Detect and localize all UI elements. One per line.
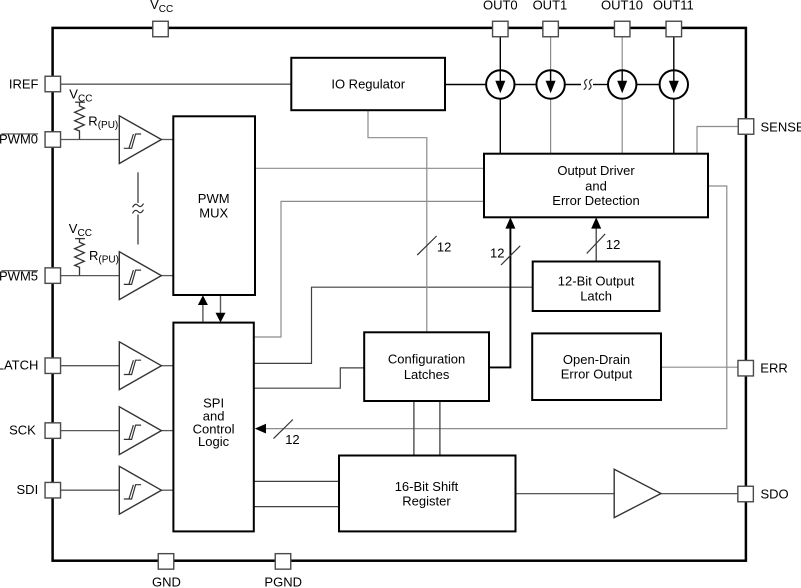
pin PWM0 <box>45 132 61 148</box>
pin SDI <box>45 482 61 498</box>
svg-text:12: 12 <box>606 237 620 252</box>
svg-text:Error Detection: Error Detection <box>552 193 639 208</box>
arrowhead into SPI top <box>216 313 226 323</box>
pin OUT10 <box>614 21 630 37</box>
wire SENSE to Output Driver <box>697 127 738 154</box>
svg-text:IREF: IREF <box>9 76 39 91</box>
pin SDO <box>738 486 754 502</box>
svg-text:SCK: SCK <box>9 423 36 438</box>
pin SCK <box>45 423 61 439</box>
bus slash on Config-to-Driver wire <box>501 246 520 265</box>
svg-text:MUX: MUX <box>199 205 228 220</box>
pin LATCH <box>45 358 61 374</box>
svg-text:PGND: PGND <box>264 575 302 588</box>
block Open-Drain Error Output <box>532 333 661 400</box>
block SPI and Control Logic <box>173 323 253 532</box>
wire PWM MUX up-arrow from SPI <box>202 304 204 322</box>
block Configuration Latches <box>364 332 489 401</box>
arrowhead into PWM MUX bottom <box>198 295 208 305</box>
pin VCC <box>153 21 169 37</box>
block IO Regulator <box>291 58 445 110</box>
wire IO Regulator down to Configuration Latches <box>368 110 427 332</box>
wire output buffer to SDO pin <box>661 493 738 495</box>
wire PWM MUX to Output Driver <box>255 167 484 169</box>
svg-text:16-Bit Shift: 16-Bit Shift <box>395 479 459 494</box>
bus 12-Bit Output Latch to Output Driver <box>595 228 597 262</box>
bus slash on Latch-to-Driver wire <box>587 234 606 254</box>
wires SPI to 16-Bit Shift Register <box>254 480 339 482</box>
svg-text:Latch: Latch <box>580 288 612 303</box>
wire IREF to IO Regulator <box>61 83 292 85</box>
bus slash on IO-Reg-to-Config wire <box>417 236 436 255</box>
svg-text:Error Output: Error Output <box>561 367 633 382</box>
current source I-OUT11 <box>660 70 688 98</box>
wire SDI pin to trigger <box>61 489 120 491</box>
pin IREF <box>45 76 61 92</box>
wire PWM0 pin to trigger <box>61 139 120 141</box>
wire SPI up-over to Output Driver <box>254 201 484 337</box>
pin PGND <box>275 554 291 570</box>
wires Configuration Latches to 16-Bit Shift Register <box>413 401 415 456</box>
pin SENSE <box>738 119 754 135</box>
svg-text:12: 12 <box>437 239 451 254</box>
svg-text:12-Bit Output: 12-Bit Output <box>558 273 635 288</box>
pin OUT1 <box>543 21 559 37</box>
arrowhead into Output Driver bottom <box>591 217 601 228</box>
wire Open-Drain Error Output to ERR pin <box>661 366 738 368</box>
svg-text:PWM: PWM <box>198 191 230 206</box>
svg-text:Register: Register <box>402 493 451 508</box>
bus Output Driver feedback to SPI <box>265 186 727 429</box>
output buffer triangle (SDO) <box>614 469 661 517</box>
svg-text:Open-Drain: Open-Drain <box>563 352 630 367</box>
svg-text:Output Driver: Output Driver <box>557 163 635 178</box>
schmitt trigger U4 (SCK) <box>119 407 161 455</box>
svg-text:Configuration: Configuration <box>388 351 465 366</box>
resistor R(PU) pull-up on PWM0 <box>75 102 85 139</box>
svg-text:Latches: Latches <box>404 367 450 382</box>
wire SCK pin to trigger <box>61 430 120 432</box>
svg-text:OUT10: OUT10 <box>601 0 643 12</box>
block PWM MUX <box>173 116 255 295</box>
svg-text:IO Regulator: IO Regulator <box>331 76 405 91</box>
wire SPI down-arrow from PWM MUX <box>220 296 222 314</box>
svg-text:and: and <box>585 179 607 194</box>
svg-text:ERR: ERR <box>760 361 787 376</box>
bus slash on feedback wire <box>274 420 293 439</box>
wire 16-Bit Shift Register to output buffer <box>516 493 615 495</box>
wire trigger U1 out to PWM MUX <box>161 139 174 141</box>
wire SPI to 12-Bit Output Latch <box>254 287 533 363</box>
block Output Driver and Error Detection <box>484 154 708 218</box>
svg-text:Logic: Logic <box>198 434 230 449</box>
wire trigger U5 out to SPI <box>161 489 174 491</box>
pin OUT0 <box>493 21 509 37</box>
current source I-OUT0 <box>486 70 514 98</box>
current source I-OUT1 <box>536 70 564 98</box>
current source I-OUT10 <box>608 70 636 98</box>
block 12-Bit Output Latch <box>533 262 660 312</box>
svg-text:OUT11: OUT11 <box>653 0 694 12</box>
pin PWM5 <box>45 268 61 284</box>
current source rail from IO Regulator <box>445 84 486 86</box>
wire LATCH pin to trigger <box>61 365 120 367</box>
svg-text:LATCH: LATCH <box>0 358 38 373</box>
bus Configuration Latches to Output Driver <box>489 228 510 368</box>
svg-text:SDI: SDI <box>17 482 39 497</box>
svg-text:OUT1: OUT1 <box>533 0 568 12</box>
wire trigger U2 out to PWM MUX <box>161 275 174 277</box>
svg-text:12: 12 <box>285 432 299 447</box>
chip outline border <box>53 28 746 561</box>
OUT10 column wires <box>621 37 623 70</box>
svg-text:SDO: SDO <box>761 486 789 501</box>
block 16-Bit Shift Register <box>339 456 516 532</box>
OUT0 column wires <box>499 37 501 70</box>
pin OUT11 <box>666 21 682 37</box>
schmitt trigger U1 (PWM0) <box>119 116 161 164</box>
wire PWM5 pin to trigger <box>61 275 120 277</box>
wire SPI to Configuration Latches <box>254 368 364 388</box>
pin ERR <box>738 360 754 376</box>
rail break squiggle <box>584 79 588 89</box>
arrowhead into SPI right edge <box>255 424 266 434</box>
schmitt trigger U5 (SDI) <box>119 466 161 514</box>
OUT11 column wires <box>673 37 675 70</box>
resistor R(PU) pull-up on PWM5 <box>75 239 85 276</box>
svg-text:OUT0: OUT0 <box>483 0 518 12</box>
wire trigger U4 out to SPI <box>161 430 174 432</box>
OUT1 column wires <box>550 37 552 70</box>
pin GND <box>158 554 174 570</box>
channel-continuation break line between PWM triggers <box>133 172 144 244</box>
wire trigger U3 out to SPI <box>161 365 174 367</box>
arrowhead into Output Driver bottom <box>505 217 515 228</box>
svg-text:12: 12 <box>490 246 504 261</box>
svg-text:SENSE: SENSE <box>761 119 801 134</box>
svg-text:GND: GND <box>152 575 181 588</box>
schmitt trigger U2 (PWM5) <box>119 252 161 300</box>
schmitt trigger U3 (LATCH) <box>119 342 161 390</box>
